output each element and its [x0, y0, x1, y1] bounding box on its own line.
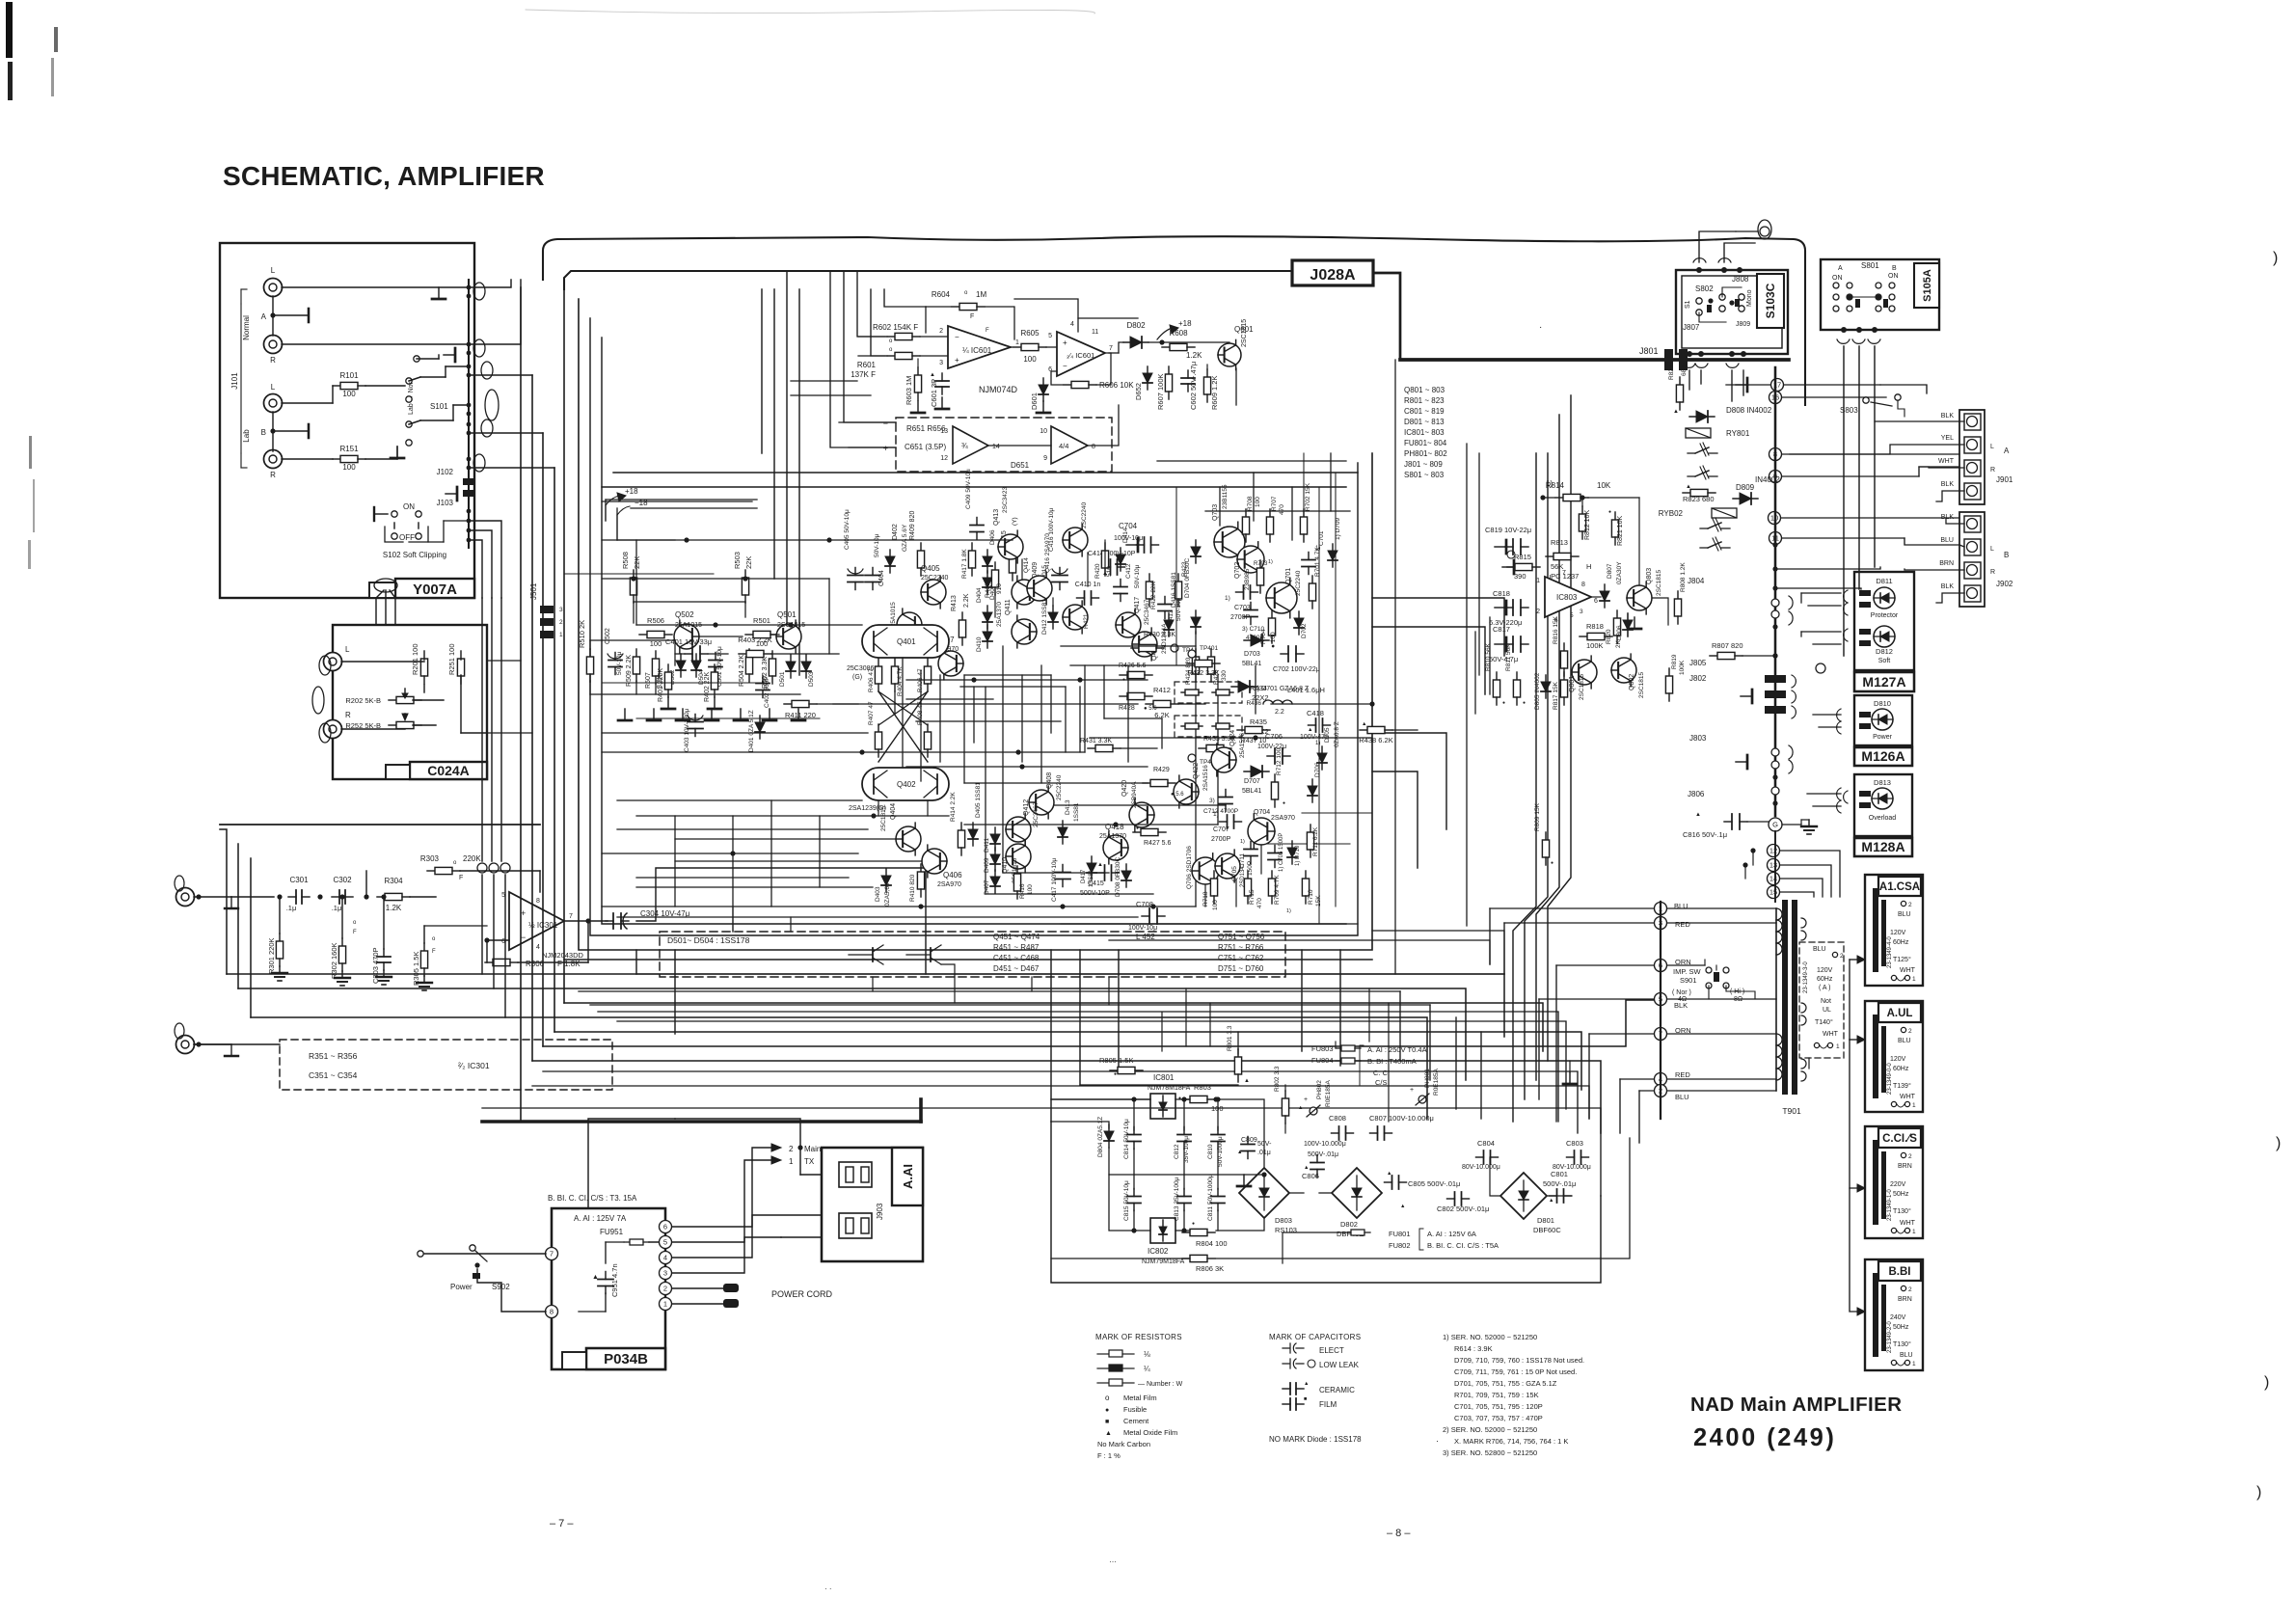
svg-text:NJM78M18FA: NJM78M18FA	[1148, 1085, 1191, 1092]
svg-text:A. AI : 125V 7A: A. AI : 125V 7A	[574, 1214, 627, 1223]
svg-text:4: 4	[536, 944, 540, 951]
svg-text:D706: D706	[1314, 762, 1321, 777]
bridge D802 DBF40E	[1332, 1168, 1382, 1218]
svg-text:RED: RED	[1675, 1070, 1690, 1079]
diode D406	[986, 550, 988, 573]
svg-text:7: 7	[550, 1250, 554, 1259]
svg-text:2: 2	[1908, 1028, 1912, 1035]
diode D710	[1291, 841, 1293, 864]
svg-text:D803: D803	[1275, 1216, 1292, 1225]
diode D410	[986, 625, 988, 648]
svg-text:2700P: 2700P	[1230, 614, 1251, 621]
ground near t901	[1569, 1072, 1571, 1084]
svg-text:UL: UL	[1823, 1007, 1831, 1014]
terminal circle 13	[1768, 859, 1780, 872]
mains box A1.CSA	[1865, 875, 1923, 986]
svg-text:WHT: WHT	[1900, 967, 1916, 974]
transistor Q414 2SC1815c	[1027, 572, 1052, 605]
wire ic601b top rail	[1078, 318, 1138, 332]
arrow to B.BI	[1850, 1188, 1857, 1312]
junction Y007A pin 4	[467, 365, 472, 369]
svg-text:R435: R435	[1250, 717, 1267, 726]
board C024A outline	[333, 625, 487, 779]
svg-text:No Mark Carbon: No Mark Carbon	[1097, 1440, 1150, 1448]
resistor R601 137KF	[887, 355, 895, 357]
wire field v11	[1161, 718, 1163, 748]
resistor R403 2.2K	[739, 653, 746, 655]
svg-text:R: R	[1990, 467, 1995, 474]
relay contact RY802b	[1700, 547, 1708, 549]
terminal circle 15	[1768, 886, 1780, 899]
transistor Q411 2SA1570	[1012, 615, 1037, 648]
resistor R607 100K	[1168, 366, 1170, 374]
svg-text:J903: J903	[876, 1203, 884, 1220]
resistor R422 22K	[1148, 574, 1150, 582]
diode D412 1SS81	[1052, 606, 1054, 629]
svg-text:100: 100	[1212, 900, 1219, 910]
resistor R151 100	[282, 458, 333, 460]
svg-text:2.2: 2.2	[1275, 709, 1284, 716]
svg-text:R814: R814	[1546, 481, 1565, 490]
svg-text:D413: D413	[1065, 799, 1071, 815]
svg-text:FU802: FU802	[1389, 1241, 1411, 1250]
wire q402 tails	[878, 800, 879, 816]
capacitor C417 100V-10u	[1062, 865, 1064, 873]
svg-text:2: 2	[1840, 953, 1844, 960]
svg-text:1): 1)	[1286, 908, 1291, 914]
svg-text:Q802: Q802	[1629, 674, 1635, 690]
arcs M127A	[1844, 590, 1848, 603]
resistor R805 1.5K	[1110, 1069, 1118, 1071]
wire field h11	[636, 886, 873, 888]
junction Y007A pin 14	[467, 528, 472, 533]
svg-text:2SC3423: 2SC3423	[1002, 487, 1009, 513]
resistor R415 100	[1012, 548, 1013, 555]
svg-text:D808 IN4002: D808 IN4002	[1726, 406, 1772, 415]
svg-text:●: ●	[1178, 1096, 1181, 1101]
svg-text:R430 3.3K: R430 3.3K	[1144, 632, 1175, 638]
svg-text:BLK: BLK	[1941, 514, 1955, 521]
svg-text:220K: 220K	[463, 854, 481, 863]
svg-text:D703: D703	[1244, 651, 1260, 658]
resistor R437 10	[1237, 729, 1245, 731]
jack J101 L lab	[264, 394, 283, 413]
pins S103C bottom	[1687, 351, 1692, 357]
wire bus drop ra	[1394, 360, 1396, 974]
capacitor C809 50V-.01u	[1247, 1137, 1249, 1145]
svg-text:C808: C808	[1329, 1114, 1346, 1123]
diode D413 1SS81	[1062, 821, 1064, 844]
wire patchB h3	[636, 877, 849, 879]
board A.AI label tab	[892, 1148, 923, 1205]
psu gnd rail	[1109, 1148, 1264, 1175]
svg-text:C817: C817	[1493, 625, 1510, 634]
svg-text:1.2K: 1.2K	[386, 904, 402, 912]
svg-text:C/S: C/S	[1375, 1078, 1388, 1087]
wires C024A top cable	[376, 590, 384, 625]
wire d802 out	[1148, 341, 1229, 343]
svg-text:R414 2.2K: R414 2.2K	[950, 792, 957, 822]
ground stub B	[396, 447, 398, 459]
svg-text:100: 100	[1023, 355, 1037, 364]
svg-text:·: ·	[1436, 1436, 1439, 1446]
svg-text:(G): (G)	[852, 674, 862, 681]
wire main tx vertical	[588, 1119, 675, 1208]
wire cross couple big	[878, 691, 928, 762]
svg-text:C814 50V-10μ: C814 50V-10μ	[1123, 1119, 1130, 1159]
wire patchA v6	[1079, 687, 1081, 752]
svg-text:D810: D810	[1874, 699, 1891, 708]
resistor R429 5.6	[1143, 782, 1150, 784]
svg-text:R412: R412	[1153, 686, 1171, 694]
svg-text:B.BI: B.BI	[1889, 1266, 1911, 1278]
svg-text:60Hz: 60Hz	[1893, 1066, 1909, 1072]
svg-text:C811 50V-1000μ: C811 50V-1000μ	[1207, 1174, 1214, 1221]
op-amp IC803	[1545, 577, 1591, 617]
resistor R602 154KF	[887, 336, 895, 338]
svg-text:D501: D501	[779, 671, 786, 687]
svg-text:D503: D503	[808, 671, 815, 687]
svg-text:Q413: Q413	[993, 509, 1000, 526]
svg-text:J804: J804	[1688, 577, 1705, 585]
svg-text:— Number : W: — Number : W	[1138, 1381, 1183, 1388]
svg-text:Q414: Q414	[1023, 557, 1030, 573]
svg-text:390: 390	[1514, 572, 1526, 581]
wire field h2	[602, 578, 829, 580]
svg-text:●: ●	[1192, 1221, 1195, 1227]
scan artifact left edge	[6, 2, 13, 58]
arcs M128A	[1844, 791, 1848, 803]
transistor Q418 2SA1370	[1103, 831, 1128, 864]
svg-text:5: 5	[663, 1238, 667, 1247]
svg-text:C802 500V-.01μ: C802 500V-.01μ	[1437, 1204, 1489, 1213]
svg-text:Protector: Protector	[1871, 612, 1899, 619]
svg-text:●: ●	[1551, 860, 1553, 866]
junction Y007A pin 12	[467, 509, 472, 514]
relay coil RY802	[1712, 508, 1737, 518]
svg-text:R801 3.3: R801 3.3	[1227, 1025, 1233, 1051]
svg-text:50V-10μ: 50V-10μ	[874, 533, 880, 557]
op-amp D651b	[1051, 426, 1088, 464]
svg-text:25C2240: 25C2240	[1056, 774, 1063, 800]
svg-text:R609 1.2K: R609 1.2K	[1210, 376, 1219, 410]
regulator IC802	[1150, 1218, 1175, 1243]
transistor pair in dashed box a	[849, 954, 873, 956]
resistor R704 100	[1271, 610, 1273, 618]
svg-text:1: 1	[559, 632, 563, 638]
pot R202 5K-B	[389, 699, 396, 701]
wire field h1	[636, 624, 862, 626]
svg-text:ON: ON	[403, 502, 415, 511]
svg-text:R417 1.8K: R417 1.8K	[961, 549, 968, 579]
power cord pads	[723, 1284, 739, 1292]
board S105A outline	[1821, 259, 1939, 330]
svg-text:1: 1	[1912, 1102, 1916, 1109]
svg-text:▲: ▲	[592, 1274, 599, 1281]
wire patchA v4	[1021, 675, 1023, 762]
wire patchB v2	[732, 816, 734, 932]
jack C024A R	[324, 720, 342, 739]
junction Y007A pin 7	[467, 412, 472, 417]
diode D704b	[1195, 540, 1197, 563]
svg-text:WHT: WHT	[1823, 1031, 1839, 1038]
svg-text:Power: Power	[1873, 734, 1893, 741]
diode D502	[680, 654, 682, 677]
svg-text:12: 12	[940, 455, 948, 462]
svg-text:C413: C413	[1168, 609, 1175, 625]
capacitor C708 100V-10u	[1142, 915, 1149, 917]
capacitor C414 500V-10P	[1103, 566, 1111, 568]
label R201 100	[423, 651, 425, 659]
svg-text:C712 4700P: C712 4700P	[1203, 808, 1238, 815]
resistor R412 6.2K	[1146, 703, 1153, 705]
coil symbols j802	[1792, 675, 1796, 688]
svg-text:R607 100K: R607 100K	[1156, 373, 1165, 410]
svg-text:3: 3	[939, 360, 943, 366]
svg-text:Q705: Q705	[1231, 866, 1238, 881]
resistor R821 10K	[1614, 512, 1616, 520]
svg-text:2700P: 2700P	[1211, 836, 1231, 843]
svg-text:R429: R429	[1153, 767, 1170, 773]
svg-text:2400 (249): 2400 (249)	[1693, 1424, 1836, 1451]
transistor Q802 2SC1815	[1611, 654, 1636, 687]
socket J903 lower	[839, 1213, 872, 1238]
svg-text:R251 100: R251 100	[447, 643, 456, 675]
resistor R808 1.2K	[1677, 591, 1679, 599]
transformer T901 primary windings	[1775, 908, 1777, 1091]
svg-text:R817 15K: R817 15K	[1553, 681, 1559, 710]
svg-text:BRN: BRN	[1939, 560, 1954, 567]
terminal circle 1	[1655, 903, 1667, 915]
capacitor C301 .1u	[288, 896, 296, 898]
svg-text:●: ●	[1608, 509, 1611, 515]
transistor Q502 2SA1015	[674, 620, 699, 653]
svg-text:¼: ¼	[1144, 1365, 1150, 1373]
wire yel	[1790, 445, 1964, 454]
svg-text:Q502: Q502	[675, 610, 694, 619]
svg-text:R804 100: R804 100	[1196, 1239, 1228, 1248]
svg-text:2.2K: 2.2K	[963, 593, 970, 608]
thick wire to PSU	[482, 1120, 921, 1123]
wires vas section	[1021, 559, 1023, 579]
svg-text:D501~ D504 : 1SS178: D501~ D504 : 1SS178	[667, 935, 750, 945]
svg-text:R703: R703	[1254, 561, 1268, 567]
legend resistor W	[1097, 1382, 1109, 1384]
svg-text:7: 7	[1562, 570, 1566, 577]
op-amp IC301	[509, 892, 564, 950]
wire bus drop rc	[1478, 453, 1480, 675]
capacitor C701	[1308, 553, 1310, 560]
wire amp frame top2	[773, 289, 775, 579]
wire psu drop x3	[1209, 1003, 1211, 1046]
terminal circle 9	[1769, 471, 1782, 483]
wire s901 links	[1704, 960, 1706, 965]
wire t6 orn	[1667, 964, 1705, 966]
wire drop v4	[1050, 950, 1052, 1122]
svg-text:25C1815: 25C1815	[880, 805, 887, 831]
terminal circle 4	[1655, 1073, 1667, 1086]
svg-text:BLK: BLK	[1674, 1001, 1688, 1010]
svg-text:●: ●	[1105, 1407, 1109, 1414]
terminal circle 12	[1768, 845, 1780, 857]
wire drop v1	[925, 868, 927, 974]
svg-text:J102: J102	[437, 468, 454, 476]
svg-text:R506: R506	[647, 616, 664, 625]
svg-text:FU801~ 804: FU801~ 804	[1404, 439, 1447, 447]
svg-text:100V-10.000μ: 100V-10.000μ	[1304, 1141, 1346, 1148]
svg-text:R807 820: R807 820	[1712, 641, 1743, 650]
svg-text:J807: J807	[1683, 323, 1700, 332]
test point TP401	[1188, 650, 1196, 658]
svg-text:Mono: Mono	[1746, 289, 1753, 307]
svg-text:5BL41: 5BL41	[1242, 661, 1261, 667]
wire bus staircase left3	[250, 858, 252, 1017]
ground stub A	[438, 287, 440, 299]
svg-text:S901: S901	[1680, 976, 1697, 985]
wire patchC v3	[1291, 487, 1293, 540]
svg-text:●: ●	[1136, 826, 1139, 831]
transistor Q701 2SC2240	[1266, 578, 1297, 618]
svg-text:A. AI : 250V T0.4A: A. AI : 250V T0.4A	[1367, 1045, 1427, 1054]
svg-text:F: F	[970, 313, 974, 320]
resistor R811 56K	[1516, 672, 1518, 680]
svg-text:.1μ: .1μ	[286, 904, 297, 912]
resistor R430 3.3K	[1131, 647, 1139, 649]
svg-text:T901: T901	[1782, 1106, 1801, 1116]
svg-text:Not: Not	[1821, 998, 1831, 1005]
svg-text:910: 910	[996, 583, 1003, 594]
wire second top line	[564, 271, 1292, 289]
svg-text:4: 4	[1070, 321, 1074, 328]
wire patchA v5	[1040, 665, 1042, 783]
wire field v3	[828, 579, 830, 654]
wires into voltage boxes	[1808, 1058, 1810, 1069]
svg-text:100V-10μ: 100V-10μ	[1128, 925, 1157, 932]
transistor Q601 2SC1815	[1218, 339, 1241, 369]
svg-text:0ZA6.8 Z: 0ZA6.8 Z	[1334, 721, 1340, 747]
terminal circle 10	[1769, 512, 1781, 525]
svg-text:Overload: Overload	[1869, 815, 1897, 822]
svg-text:R427 5.6: R427 5.6	[1144, 840, 1172, 847]
svg-text:R811 56K: R811 56K	[1505, 643, 1512, 671]
junction Y007A pin 6	[467, 403, 472, 408]
svg-text:J501: J501	[529, 582, 538, 600]
wire field h3	[634, 601, 745, 603]
diode D807 0ZA30Y	[1604, 584, 1606, 608]
svg-text:50Hz: 50Hz	[1893, 1191, 1909, 1198]
junction Y007A pin 9	[467, 431, 472, 436]
svg-text:H: H	[1586, 562, 1591, 571]
svg-text:5BL41: 5BL41	[1242, 788, 1261, 795]
wire right vertical bundle 1	[1513, 453, 1536, 1122]
svg-text:1: 1	[1015, 339, 1019, 346]
svg-text:C801: C801	[1551, 1170, 1568, 1178]
wire lab switch stub	[414, 356, 419, 362]
svg-text:BLU: BLU	[1940, 537, 1954, 544]
svg-text:100: 100	[1027, 884, 1034, 895]
board M127A label tab	[1854, 672, 1914, 691]
wire brn j902	[1904, 569, 1964, 570]
svg-text:R704: R704	[1260, 629, 1267, 644]
svg-text:Fusible: Fusible	[1123, 1405, 1147, 1414]
svg-text:R419: R419	[985, 582, 991, 598]
wire psu drop x2	[1185, 988, 1187, 1046]
svg-text:C751 ~ C762: C751 ~ C762	[1218, 954, 1264, 962]
svg-text:B: B	[261, 428, 266, 437]
wire cross couple	[878, 691, 928, 725]
svg-text:WHT: WHT	[1900, 1094, 1916, 1100]
svg-text:o: o	[1105, 1394, 1110, 1402]
wire stair rs4	[532, 1086, 1589, 1119]
svg-text:D417: D417	[1081, 869, 1087, 883]
switch S901 contacts	[1706, 967, 1712, 973]
wire red2	[1620, 1078, 1654, 1080]
jack phono R	[176, 1036, 195, 1054]
svg-text:R431 3.3K: R431 3.3K	[1080, 738, 1112, 744]
wires S105A drop	[1843, 346, 1845, 656]
switch S902 power	[470, 1245, 475, 1251]
svg-text:RY801: RY801	[1726, 429, 1750, 438]
svg-text:Q501: Q501	[777, 610, 797, 619]
wire psu drop x1	[1161, 1013, 1163, 1051]
junction Y007A pin 10	[467, 457, 472, 462]
svg-text:L: L	[345, 645, 350, 654]
svg-text:25C2240: 25C2240	[921, 575, 949, 582]
svg-text:D701, 705, 751, 755 : GZA 5.1: D701, 705, 751, 755 : GZA 5.1Z	[1454, 1379, 1557, 1388]
svg-text:¼ IC601: ¼ IC601	[962, 346, 992, 355]
svg-text:RYB02: RYB02	[1659, 509, 1684, 518]
terminal circle 14	[1768, 873, 1780, 885]
svg-text:2: 2	[1536, 609, 1540, 615]
wire field extra h29	[636, 717, 820, 719]
wire drop d501 v4	[954, 977, 956, 1003]
svg-text:T130°: T130°	[1893, 1207, 1911, 1215]
svg-text:2SC2240: 2SC2240	[1081, 502, 1088, 528]
svg-text:23-1349-3-0: 23-1349-3-0	[1803, 961, 1809, 993]
svg-text:R708: R708	[1247, 496, 1254, 511]
transistor Q407 2SA970	[938, 647, 963, 680]
wire drop d501 v3	[872, 977, 874, 991]
resistor R419 910	[994, 562, 996, 570]
svg-text:J808: J808	[1732, 275, 1749, 284]
svg-text:60Hz: 60Hz	[1893, 939, 1909, 946]
resistor R303 220K F	[365, 871, 367, 897]
psu bus r802	[1284, 1085, 1286, 1091]
svg-text:80V-10.000μ: 80V-10.000μ	[1462, 1164, 1500, 1171]
capacitor C418 100V-47n	[1309, 724, 1316, 726]
main right bus vertical	[1774, 367, 1777, 816]
wires C024A	[341, 661, 424, 663]
wire drop d501 v2	[790, 917, 792, 932]
wire amp frame top4	[798, 289, 800, 675]
capacitor C711 150P	[1250, 842, 1252, 850]
wire stair rs2	[617, 1021, 1566, 1109]
svg-text:R702 15K: R702 15K	[1305, 482, 1311, 511]
svg-text:Q420: Q420	[1121, 780, 1128, 797]
svg-text:▲: ▲	[1237, 1150, 1242, 1155]
psu wires v1	[1133, 1099, 1135, 1130]
svg-text:B. BI : T400mA: B. BI : T400mA	[1367, 1057, 1417, 1066]
board Y007A outline	[220, 243, 474, 598]
svg-text:M128A: M128A	[1861, 839, 1904, 854]
junction Y007A pin 5	[467, 373, 472, 378]
wire right vertical bundle 3	[1536, 415, 1559, 1080]
svg-text:C810: C810	[1207, 1144, 1214, 1159]
svg-text:3) SER. NO. 52800 ~ 521250: 3) SER. NO. 52800 ~ 521250	[1443, 1448, 1537, 1457]
svg-text:1) C705 1500P: 1) C705 1500P	[1279, 833, 1284, 872]
capacitor C401 16V-33u	[685, 653, 692, 655]
svg-text:▲: ▲	[1686, 484, 1691, 490]
